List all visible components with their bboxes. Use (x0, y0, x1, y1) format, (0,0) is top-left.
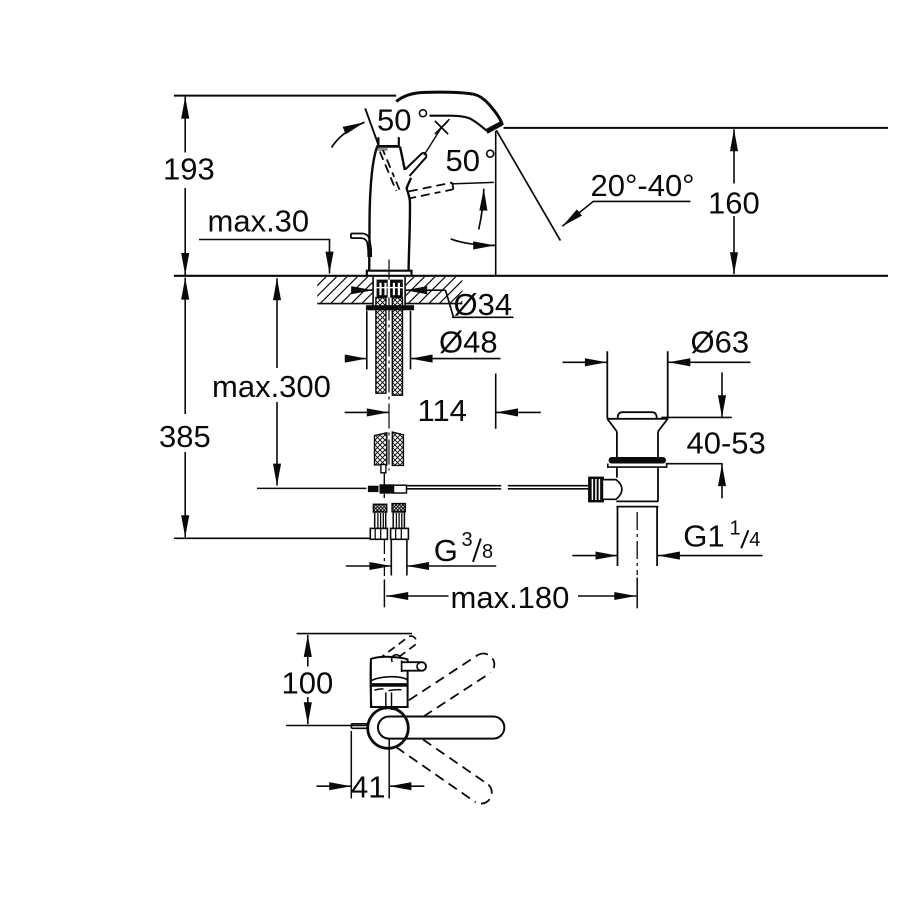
lever in raised position (405, 153, 426, 176)
faucet top cap (377, 145, 400, 148)
hose fitting body right (393, 512, 404, 528)
countertop underside right (405, 303, 462, 305)
20-40 leader (562, 201, 690, 226)
drain tube wall left (606, 351, 608, 418)
spout inner outline (430, 116, 487, 131)
lever horizontal position (dashed) (409, 183, 452, 192)
countertop hatch right (375, 277, 487, 306)
pop-up plug cap (618, 412, 657, 419)
spout outlet extension line (495, 131, 497, 276)
fixing sleeve left edge (48 ext) (366, 311, 368, 370)
countertop hatch left (287, 277, 399, 306)
dimension max.180 (386, 595, 448, 597)
dimension O63 (563, 361, 607, 363)
bottom view: lever arm (378, 717, 504, 739)
bottom view: faucet body (371, 657, 408, 707)
svg-text:3: 3 (462, 529, 473, 551)
bottom view: dashed spout (378, 636, 416, 666)
bottom view: handle hub circle (368, 708, 409, 749)
fixing sleeve right edge (48 ext) (410, 311, 412, 370)
swivel arc arrow (50 deg top-left) (332, 122, 365, 147)
svg-text:193: 193 (163, 152, 215, 187)
reference line: hose end level (385 datum) (174, 537, 370, 539)
drain tailpipe right (656, 507, 658, 566)
svg-text:max.30: max.30 (208, 204, 310, 239)
reference line: countertop surface (174, 275, 888, 277)
bottom view: dashed lever down position (423, 740, 488, 785)
swing arc arrow right (451, 239, 496, 246)
svg-text:385: 385 (159, 419, 211, 454)
svg-text:50°: 50° (446, 143, 497, 178)
reference line: top of bottom view (100 datum) (297, 633, 412, 635)
bottom view: spout joint ring (371, 677, 408, 681)
drain body right wall (657, 467, 659, 501)
svg-text:114: 114 (418, 393, 467, 428)
svg-text:max.300: max.300 (212, 369, 331, 404)
hose fitting cap left (373, 504, 386, 512)
handle shaft hidden (dashed) (380, 152, 397, 192)
svg-text:Ø34: Ø34 (454, 287, 513, 322)
svg-text:20°-40°: 20°-40° (591, 168, 695, 203)
svg-text:G1: G1 (683, 519, 724, 554)
bottom view: dashed lever up position (396, 655, 479, 709)
drain bottom flange (616, 501, 658, 506)
svg-text:4: 4 (749, 529, 760, 551)
faucet neck stub left (377, 137, 379, 146)
leader from X to lever tip (424, 128, 442, 156)
drain tailpipe left (617, 507, 619, 566)
drain centerline (636, 512, 638, 575)
G1 1/4 slash (741, 530, 748, 548)
left hose centerline (383, 540, 385, 576)
G3/8 nut left (370, 528, 387, 539)
body right edge upper (400, 147, 405, 170)
countertop underside left (317, 303, 372, 305)
drain neck left (616, 432, 618, 458)
bottom view: pop-up knob (402, 662, 426, 671)
braided hose lower left (after break) (375, 433, 387, 465)
dimension O34 (351, 289, 373, 291)
max180 left tick (383, 580, 385, 608)
reference line: spout outlet level (160 datum) (504, 127, 889, 129)
handle base gray bar (378, 148, 388, 151)
G3/8 slash (473, 539, 481, 562)
svg-text:max.180: max.180 (451, 580, 570, 615)
pop-up pull rod knob (side view) (351, 234, 371, 258)
drain body left wall (616, 467, 618, 478)
horizontal pull rod thin left part (257, 487, 366, 489)
hose fitting body left (375, 512, 386, 528)
dimension max.300 (276, 278, 278, 368)
drain rod knob (589, 477, 603, 501)
handle extended line (50 deg position) (365, 108, 379, 147)
drain taper left (607, 419, 617, 432)
drain flange band (608, 464, 667, 468)
hose pipe below right nut (390, 539, 392, 575)
dimension G1 1/4 (572, 555, 617, 557)
drain O-ring (609, 457, 666, 464)
faucet centerline (388, 260, 390, 471)
threaded shank in hole (377, 280, 403, 298)
dimension 385 (184, 278, 186, 414)
mounting hole edge left (372, 277, 374, 305)
hose tail left (381, 465, 386, 473)
drain neck right (657, 432, 659, 458)
svg-text:50°: 50° (377, 103, 429, 138)
mounting hole edge right (404, 277, 406, 305)
faucet neck stub right (398, 137, 400, 145)
dimension 100 (307, 635, 309, 667)
pop-up vertical rod (383, 473, 385, 486)
dimension 160 (733, 129, 735, 183)
horizontal pull rod tube (407, 485, 502, 487)
drain rod port (603, 480, 622, 500)
X marker (435, 121, 448, 134)
svg-text:40-53: 40-53 (687, 426, 766, 461)
spout outer outline (396, 92, 502, 125)
dimension 114 (345, 411, 389, 413)
svg-text:100: 100 (282, 666, 334, 701)
reference line: faucet top (193 datum) (174, 95, 396, 97)
svg-text:Ø48: Ø48 (439, 325, 498, 360)
base plate (367, 271, 412, 277)
braided hose upper right (392, 298, 402, 396)
svg-text:1: 1 (730, 518, 741, 540)
svg-text:G: G (434, 533, 458, 568)
svg-text:41: 41 (351, 770, 385, 805)
drain flange top line (607, 418, 667, 420)
dimension 40-53 (661, 416, 732, 418)
svg-text:8: 8 (482, 541, 493, 563)
dimension O48 (345, 358, 367, 360)
dimension G3/8 (346, 565, 392, 567)
braided hose lower right (after break) (392, 432, 403, 465)
mounting nut (366, 305, 414, 310)
rod joint blocks (368, 486, 379, 492)
spout outlet face (486, 123, 501, 131)
body right edge lower (407, 178, 411, 271)
bottom view: pull rod stub (351, 724, 369, 729)
braided hose upper left (376, 298, 386, 394)
svg-text:Ø63: Ø63 (691, 325, 750, 360)
max180 right tick (636, 578, 638, 609)
G3/8 nut right (391, 528, 409, 539)
water stream line (20-40 deg) (496, 130, 560, 240)
hose fitting cap right (392, 504, 405, 512)
lever axis thin extension (451, 182, 494, 184)
dimension max.30 leader (199, 240, 330, 274)
body left edge (369, 147, 377, 271)
dimension 193 (184, 97, 186, 153)
drain taper right (658, 419, 668, 432)
dimension 41 (350, 731, 352, 799)
lift arc arrow up (479, 189, 484, 230)
svg-text:160: 160 (708, 186, 760, 221)
reference line: handle axis of bottom view (100 datum bottom) (286, 725, 369, 727)
drain tube wall right (667, 351, 669, 418)
